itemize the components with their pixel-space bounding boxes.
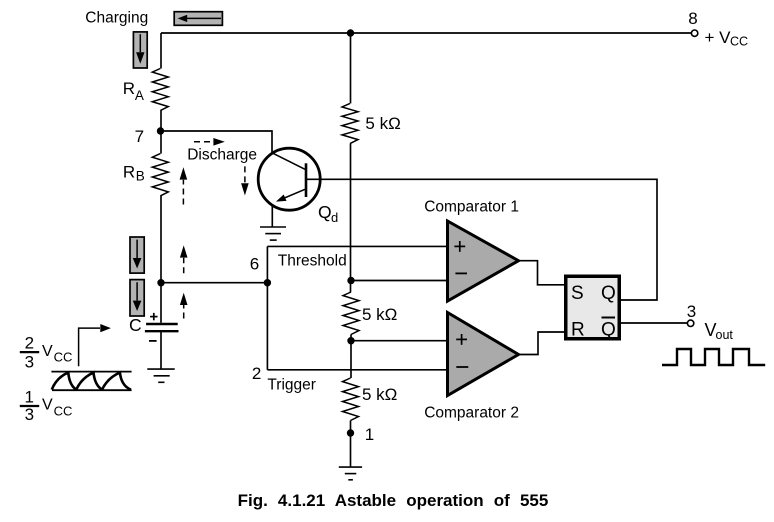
gray down-arrow box 1 (cap) xyxy=(130,237,144,273)
ground (capacitor) xyxy=(147,369,174,382)
svg-text:3: 3 xyxy=(25,353,34,372)
wire threshold-trigger vertical bus xyxy=(266,246,268,369)
svg-text:5 kΩ: 5 kΩ xyxy=(362,385,397,404)
svg-text:CC: CC xyxy=(54,404,73,419)
svg-text:3: 3 xyxy=(687,302,696,321)
svg-text:7: 7 xyxy=(135,127,144,146)
svg-text:Threshold: Threshold xyxy=(278,252,347,269)
wire comparator1 output to S xyxy=(519,261,565,285)
svg-text:5 kΩ: 5 kΩ xyxy=(365,114,400,133)
wire left rail RA top lead xyxy=(160,33,162,69)
square wave symbol xyxy=(662,349,765,365)
svg-text:1: 1 xyxy=(365,425,374,444)
discharge dashed arrow down xyxy=(241,166,249,195)
svg-text:CC: CC xyxy=(54,350,73,365)
svg-text:6: 6 xyxy=(250,255,259,274)
node 7 junction xyxy=(157,127,164,134)
svg-text:S: S xyxy=(571,283,584,304)
svg-text:Q: Q xyxy=(601,283,616,304)
wire divider top lead xyxy=(350,33,352,103)
svg-text:Comparator 1: Comparator 1 xyxy=(424,198,519,215)
wire transistor base to Q output xyxy=(307,179,657,300)
flip-flop xyxy=(566,276,620,339)
svg-text:B: B xyxy=(136,169,145,184)
svg-text:V: V xyxy=(42,397,53,414)
ground (transistor emitter) xyxy=(260,227,286,240)
comparator1 minus xyxy=(455,272,467,274)
resistor RB xyxy=(152,154,168,196)
transistor Qd xyxy=(258,148,320,210)
node 1 junction xyxy=(347,429,354,436)
ground (divider bottom) xyxy=(339,467,362,480)
svg-text:5 kΩ: 5 kΩ xyxy=(362,305,397,324)
svg-text:Fig. 4.1.21 Astable operation: Fig. 4.1.21 Astable operation of 555 xyxy=(238,491,549,510)
svg-text:2: 2 xyxy=(252,364,261,383)
wire comparator2 output to R xyxy=(519,332,565,355)
svg-text:Charging: Charging xyxy=(85,10,148,27)
node 6 junction xyxy=(264,279,271,286)
wire capacitor bottom to ground xyxy=(160,332,162,370)
comparator2 plus xyxy=(456,334,467,345)
capacitor C xyxy=(145,324,179,331)
svg-text:A: A xyxy=(135,88,144,103)
charging arrow box (down) xyxy=(133,32,147,68)
svg-text:+ V: + V xyxy=(705,28,732,47)
svg-text:8: 8 xyxy=(688,9,697,28)
resistor RA xyxy=(152,69,168,111)
svg-text:R: R xyxy=(123,79,135,98)
charging dashed arrow up 1 xyxy=(180,167,188,204)
wire node B to comparator2 plus xyxy=(351,340,448,342)
wire RA bottom to RB top (node 7) xyxy=(160,111,162,154)
svg-text:d: d xyxy=(331,210,338,225)
svg-text:R: R xyxy=(571,319,585,340)
capacitor plus sign xyxy=(150,313,157,320)
svg-text:Comparator 2: Comparator 2 xyxy=(424,405,519,422)
junction capacitor node xyxy=(157,279,164,286)
sawtooth waveform xyxy=(51,372,131,391)
wire node A to comparator1 minus xyxy=(352,280,449,282)
wire trigger branch to comparator2 minus xyxy=(267,369,448,371)
junction divider node B xyxy=(347,337,354,344)
capacitor minus sign xyxy=(149,340,157,342)
comparator U1 xyxy=(448,221,519,301)
wire RB bottom to capacitor top xyxy=(160,196,162,323)
resistor 5k 3 xyxy=(343,378,359,421)
svg-text:Discharge: Discharge xyxy=(187,147,257,164)
svg-text:R: R xyxy=(123,163,135,182)
svg-text:Trigger: Trigger xyxy=(267,376,316,393)
charging dashed arrow up 2 xyxy=(180,245,188,273)
wire +Vcc top rail xyxy=(161,32,691,34)
comparator U2 xyxy=(448,313,519,396)
junction divider node A xyxy=(347,277,354,284)
wire 5k3 to ground (node 1) xyxy=(350,421,352,468)
pin-8 terminal xyxy=(691,30,697,36)
wire threshold branch to comparator1 plus xyxy=(267,245,448,247)
svg-text:CC: CC xyxy=(730,35,748,49)
svg-text:Q: Q xyxy=(601,319,616,340)
discharge dashed arrow right xyxy=(194,138,225,146)
svg-text:C: C xyxy=(129,315,142,335)
comparator1 plus xyxy=(454,241,465,252)
junction dot top rail / divider xyxy=(347,29,354,36)
svg-text:Q: Q xyxy=(318,202,332,222)
resistor 5k 1 xyxy=(342,103,358,143)
svg-text:1: 1 xyxy=(25,388,34,407)
comparator2 minus xyxy=(456,366,468,368)
wire cap node to node 6 xyxy=(161,282,267,284)
svg-text:3: 3 xyxy=(25,405,34,424)
pin-3 terminal xyxy=(687,320,693,326)
wire transistor emitter to ground xyxy=(271,205,273,227)
wire Qbar output to pin 3 xyxy=(621,322,687,324)
svg-text:2: 2 xyxy=(25,333,34,352)
svg-text:V: V xyxy=(42,343,53,360)
svg-text:out: out xyxy=(716,328,734,342)
charge direction arrow xyxy=(79,324,111,366)
charging dashed arrow up 3 xyxy=(180,293,188,319)
gray down-arrow box 2 (cap) xyxy=(130,280,144,316)
charging arrow box (left) xyxy=(174,12,222,26)
wire divider between 5k2 and 5k3 xyxy=(350,335,352,379)
resistor 5k 2 xyxy=(343,292,359,335)
wire node 7 to transistor collector xyxy=(161,131,273,153)
wire divider between 5k1 and node A xyxy=(350,144,352,292)
